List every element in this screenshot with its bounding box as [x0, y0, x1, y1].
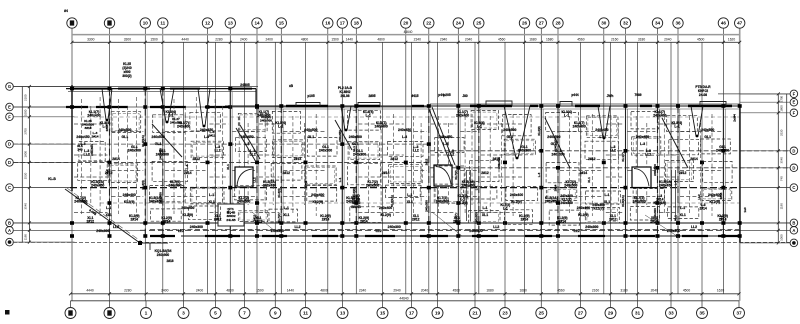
dimension tick top	[624, 41, 627, 44]
dimension tick bottom	[304, 292, 307, 295]
svg-text:KL2(9): KL2(9)	[183, 213, 194, 217]
grid bubble top # at x=72	[67, 18, 77, 28]
beam outline dashed room	[271, 164, 302, 181]
grid bubble bottom 1 at x=146	[141, 308, 152, 319]
grid bubble top 18 at x=356.3	[351, 18, 361, 28]
svg-text:12: 12	[205, 21, 211, 26]
svg-text:B: B	[8, 220, 11, 225]
beam outline dashed room	[666, 161, 694, 182]
svg-text:4800: 4800	[320, 289, 328, 293]
wall segment thick on bottom edge	[365, 235, 395, 237]
column	[676, 104, 680, 108]
grid bubble bottom 21 at x=475	[470, 308, 481, 319]
beam line interior horizontal dashed	[460, 170, 477, 172]
svg-text:240x400: 240x400	[497, 157, 501, 169]
wall segment thick on bottom edge	[682, 235, 708, 237]
svg-text:2400: 2400	[161, 289, 169, 293]
column	[108, 87, 112, 91]
bay window protrusion	[700, 102, 726, 107]
dimension line top overall (grey)	[72, 34, 740, 36]
beam line interior horizontal dashed	[210, 212, 229, 214]
svg-text:LL2: LL2	[215, 149, 221, 153]
svg-text:27: 27	[578, 311, 584, 317]
column	[656, 201, 660, 205]
svg-text:1680: 1680	[546, 37, 554, 41]
column	[143, 87, 147, 91]
svg-text:D: D	[8, 142, 11, 147]
beam line interior horizontal dashed	[628, 131, 656, 133]
column	[676, 221, 680, 225]
column	[624, 186, 628, 190]
svg-text:L-1: L-1	[106, 206, 111, 210]
grid line E horizontal	[13, 106, 430, 108]
svg-text:4800: 4800	[377, 37, 385, 41]
svg-text:240x450: 240x450	[91, 184, 104, 188]
svg-text:F: F	[793, 91, 796, 96]
beam outline dashed room	[307, 138, 337, 157]
svg-text:240x500: 240x500	[366, 184, 379, 188]
tapered shaft (funnel)	[160, 89, 174, 122]
wall interior vertical x=109.5	[109, 89, 111, 236]
svg-text:2#12: 2#12	[609, 218, 617, 222]
dimension tick right	[777, 166, 780, 169]
svg-text:3300: 3300	[87, 37, 95, 41]
dimension tick bottom	[474, 292, 477, 295]
column	[456, 234, 460, 238]
svg-text:240x300: 240x300	[260, 119, 272, 123]
beam outline dashed room	[111, 112, 141, 133]
svg-text:L-3: L-3	[640, 142, 645, 146]
svg-text:240x300: 240x300	[388, 225, 401, 229]
svg-text:L-1: L-1	[474, 185, 478, 190]
stair flight diagonal	[240, 125, 260, 159]
svg-text:KL5(2A): KL5(2A)	[654, 201, 666, 205]
beam outline dashed room	[471, 111, 498, 130]
corner mark bottom-left	[5, 310, 10, 315]
beam line interior horizontal dashed	[680, 196, 721, 198]
beam line interior horizontal dashed	[560, 131, 602, 133]
svg-text:XL1: XL1	[674, 215, 678, 221]
svg-text:GL1: GL1	[352, 146, 356, 152]
beam outline dashed room	[78, 161, 108, 180]
svg-text:L-1: L-1	[209, 193, 214, 197]
wall building top edge right portion	[225, 105, 740, 107]
beam line interior horizontal dashed	[232, 170, 255, 172]
beam line interior horizontal dashed	[660, 123, 677, 125]
diagonal end tick	[149, 243, 151, 250]
grid line vertical (bottom grid) x=580.5	[580, 42, 582, 301]
svg-text:2#14: 2#14	[322, 218, 330, 222]
wall segment thick on top edge	[530, 105, 538, 107]
column	[539, 186, 543, 190]
wall segment thick on top edge	[286, 105, 328, 107]
svg-text:2#14: 2#14	[112, 157, 120, 161]
beam line interior horizontal dashed	[481, 176, 523, 178]
beam outline dashed room	[350, 207, 382, 223]
beam outline dashed room	[504, 210, 532, 225]
column	[340, 186, 344, 190]
svg-text:L-1: L-1	[503, 207, 508, 211]
grid line vertical (bottom grid) x=244.5	[244, 42, 246, 301]
svg-text:p105: p105	[307, 94, 314, 98]
svg-text:A: A	[792, 228, 795, 233]
wall bottom-left horizontal continuation	[140, 242, 168, 244]
wall building bottom edge inner dashed	[150, 229, 740, 231]
svg-text:32: 32	[623, 21, 629, 26]
svg-text:31: 31	[635, 311, 641, 317]
beam line interior horizontal dashed	[259, 123, 279, 125]
beam outline dashed room	[235, 186, 267, 200]
svg-text:2#12: 2#12	[424, 158, 428, 165]
dimension tick bottom	[145, 292, 148, 295]
beam line interior horizontal dashed	[358, 176, 404, 178]
svg-text:4560: 4560	[453, 289, 461, 293]
svg-text:33: 33	[668, 311, 674, 317]
wall segment thick on top edge	[688, 105, 732, 107]
svg-text:LL2: LL2	[113, 225, 119, 229]
grid line vertical (bottom grid) x=702	[701, 42, 703, 301]
svg-text:KL7(2): KL7(2)	[277, 213, 281, 222]
beam line interior horizontal dashed	[408, 196, 427, 198]
wall building top edge left portion	[66, 88, 256, 90]
column	[228, 87, 232, 91]
svg-text:21: 21	[472, 311, 478, 317]
grid line D-upper horizontal	[13, 143, 430, 145]
grid bubble top 11 at x=162.8	[158, 18, 168, 28]
stair flight diagonal	[429, 109, 452, 167]
grid line vertical (top grid) x=678	[677, 29, 679, 294]
column	[255, 234, 259, 238]
beam outline dashed room	[348, 141, 380, 159]
beam line interior vertical dashed	[126, 106, 128, 205]
wall segment on top edge left	[74, 88, 108, 90]
column	[539, 221, 543, 225]
svg-text:44640: 44640	[399, 296, 408, 300]
svg-text:240x400: 240x400	[87, 114, 100, 118]
svg-text:L-1: L-1	[278, 125, 283, 129]
svg-text:240x500: 240x500	[304, 128, 317, 132]
grid bubble right D at y=167.8	[790, 164, 798, 172]
grid bubble bottom 15 at x=382.5	[377, 308, 388, 319]
column	[721, 234, 725, 238]
svg-text:4560: 4560	[577, 37, 585, 41]
svg-text:240x400: 240x400	[158, 148, 162, 160]
svg-text:KL-B: KL-B	[48, 177, 56, 181]
svg-text:LL2: LL2	[105, 169, 109, 175]
column	[279, 104, 283, 108]
column	[721, 104, 725, 108]
beam line interior horizontal dashed	[431, 212, 457, 214]
wall building right edge	[739, 106, 741, 242]
svg-text:2100: 2100	[24, 94, 28, 101]
grid bubble top 34 at x=657.5	[652, 18, 662, 28]
svg-text:240x500: 240x500	[633, 200, 646, 204]
svg-text:L-1: L-1	[284, 206, 289, 210]
svg-text:2#12: 2#12	[214, 218, 222, 222]
tapered shaft (funnel)	[102, 89, 112, 120]
svg-text:240x450: 240x450	[659, 184, 672, 188]
beam line interior vertical dashed	[392, 114, 394, 216]
svg-text:4500: 4500	[683, 289, 691, 293]
grid line vertical (top grid) x=541.3	[540, 29, 542, 301]
bay window protrusion	[560, 102, 572, 107]
beam line interior vertical dashed	[610, 116, 612, 214]
svg-text:B: B	[792, 220, 795, 225]
svg-text:240x300: 240x300	[96, 229, 109, 233]
dimension tick bottom	[738, 292, 741, 295]
beam outline dashed room	[238, 113, 267, 131]
svg-text:2040: 2040	[651, 289, 659, 293]
column	[304, 221, 308, 225]
svg-text:240x450: 240x450	[240, 135, 253, 139]
svg-text:LL2: LL2	[610, 149, 616, 153]
beam line interior vertical dashed	[448, 123, 450, 205]
beam line interior vertical dashed	[380, 123, 382, 205]
dimension tick right	[777, 241, 780, 244]
beam outline dashed room	[667, 116, 698, 132]
svg-text:XL1: XL1	[106, 213, 112, 217]
stair flight diagonal	[545, 118, 570, 168]
svg-text:240x400: 240x400	[653, 208, 657, 220]
beam line interior vertical dashed	[222, 106, 224, 205]
dimension tick top	[722, 41, 725, 44]
stair flight diagonal	[152, 124, 182, 157]
svg-text:2400: 2400	[240, 37, 248, 41]
svg-text:E: E	[8, 105, 11, 110]
svg-text:1800: 1800	[780, 105, 784, 112]
svg-text:LL2: LL2	[84, 153, 90, 157]
wall segment thick on bottom edge	[205, 235, 240, 237]
svg-text:240x400: 240x400	[123, 193, 136, 197]
svg-text:L-3: L-3	[402, 135, 407, 139]
grid bubble bottom 7 at x=244.5	[239, 308, 250, 319]
svg-text:19: 19	[435, 311, 441, 317]
dimension tick top	[656, 41, 659, 44]
column	[427, 104, 431, 108]
beam line interior vertical dashed	[489, 116, 491, 214]
svg-text:L-1: L-1	[604, 193, 609, 197]
svg-text:LL2: LL2	[294, 225, 300, 229]
dimension tick right	[777, 186, 780, 189]
svg-text:2#14: 2#14	[690, 157, 698, 161]
wall building bottom edge	[140, 222, 740, 224]
wall segment thick on E line	[205, 106, 232, 108]
wall diagonal bottom-left	[65, 189, 140, 243]
svg-text:4800: 4800	[226, 289, 234, 293]
svg-text:240x300: 240x300	[716, 149, 729, 153]
grid bubble left D at y=162.4	[6, 159, 14, 167]
svg-text:KL2(9): KL2(9)	[458, 201, 468, 205]
svg-text:240x400: 240x400	[577, 206, 590, 210]
column	[721, 221, 725, 225]
dimension tick bottom	[540, 292, 543, 295]
svg-text:3: 3	[182, 311, 185, 317]
beam outline dashed room	[386, 185, 421, 197]
column	[602, 221, 606, 225]
grid bubble top 20 at x=405.8	[401, 18, 411, 28]
svg-text:240x450: 240x450	[595, 128, 608, 132]
svg-text:KL2(9): KL2(9)	[312, 200, 323, 204]
beam outline dashed room	[633, 189, 665, 203]
svg-text:2940: 2940	[440, 37, 448, 41]
column	[456, 201, 460, 205]
svg-text:16: 16	[325, 21, 331, 26]
svg-text:L-3: L-3	[245, 142, 250, 146]
beam line interior horizontal dashed	[460, 196, 477, 198]
svg-text:XL1: XL1	[679, 213, 685, 217]
column	[700, 221, 704, 225]
column	[228, 142, 232, 146]
column on E line	[70, 105, 74, 109]
svg-text:24-08: 24-08	[699, 93, 707, 97]
leader line	[252, 212, 276, 232]
beam line interior horizontal dashed	[283, 170, 326, 172]
svg-text:2#12: 2#12	[283, 171, 291, 175]
svg-text:7989: 7989	[634, 93, 641, 97]
dimension tick left	[28, 241, 31, 244]
svg-text:18: 18	[354, 21, 360, 26]
svg-text:1500: 1500	[150, 37, 158, 41]
wall interior vertical x=478.8	[478, 106, 480, 236]
svg-text:2#14: 2#14	[719, 192, 723, 199]
grid line vertical (bottom grid) x=475	[474, 42, 476, 301]
svg-text:KL5(2A): KL5(2A)	[141, 135, 145, 147]
svg-text:2700: 2700	[780, 95, 784, 102]
column	[354, 234, 358, 238]
grid line vertical (top grid) x=207.5	[207, 29, 209, 294]
svg-text:24L4B: 24L4B	[226, 218, 236, 222]
dimension tick top	[427, 41, 430, 44]
svg-text:240x300: 240x300	[551, 153, 564, 157]
beam line interior horizontal dashed	[283, 196, 326, 198]
svg-text:XL1: XL1	[407, 200, 413, 204]
dimension tick bottom	[701, 292, 704, 295]
dimension line bottom 2	[71, 300, 740, 302]
svg-text:XL1: XL1	[208, 200, 214, 204]
svg-text:2280: 2280	[215, 37, 223, 41]
svg-text:L-3: L-3	[537, 172, 541, 177]
svg-text:1180: 1180	[780, 203, 784, 210]
svg-text:2700: 2700	[24, 128, 28, 135]
svg-text:KL3(4): KL3(4)	[277, 188, 281, 197]
wall interior vertical x=428.8	[428, 106, 430, 236]
column on E line	[255, 105, 259, 109]
svg-text:L-1: L-1	[564, 114, 569, 118]
grid bubble top 27 at x=541.3	[536, 18, 546, 28]
stair flight diagonal	[236, 128, 256, 162]
svg-text:240x500: 240x500	[170, 121, 182, 125]
grid line vertical (top grid) x=109.5	[109, 29, 111, 301]
grid line vertical (top grid) x=281.3	[280, 29, 282, 294]
dimension tick right	[777, 149, 780, 152]
svg-text:2#12: 2#12	[412, 218, 420, 222]
svg-text:25: 25	[539, 311, 545, 317]
grid line vertical (bottom grid) x=215.5	[215, 42, 217, 301]
svg-text:47: 47	[737, 21, 743, 26]
beam line interior vertical dashed	[80, 99, 82, 214]
beam outline dashed room	[435, 138, 464, 153]
beam line interior horizontal dashed	[232, 131, 255, 133]
dimension tick bottom	[381, 292, 384, 295]
wall segment thick on top edge	[470, 105, 512, 107]
beam line interior horizontal dashed	[358, 154, 404, 156]
column	[602, 161, 606, 165]
grid bubble top 15 at x=281.3	[276, 18, 286, 28]
svg-text:2160: 2160	[611, 37, 619, 41]
svg-text:GL1: GL1	[506, 135, 513, 139]
beam line interior horizontal dashed	[74, 154, 108, 156]
beam line interior vertical dashed	[315, 114, 317, 216]
beam outline dashed room	[585, 207, 619, 223]
svg-text:1500: 1500	[256, 289, 264, 293]
beam outline dashed room	[549, 210, 580, 225]
svg-text:F: F	[793, 110, 796, 115]
wall segment thick on E line	[96, 106, 128, 108]
svg-text:L-1: L-1	[338, 177, 342, 182]
stair shaft room	[218, 204, 244, 226]
svg-text:L-1: L-1	[674, 125, 679, 129]
wall interior vertical x=356.3	[355, 106, 357, 236]
svg-text:17: 17	[409, 311, 415, 317]
beam outline dashed room	[504, 139, 535, 155]
beam line interior horizontal dashed	[660, 212, 677, 214]
svg-text:3540: 3540	[24, 203, 28, 210]
wall segment thick on top edge	[355, 105, 380, 107]
column	[340, 104, 344, 108]
wall segment thick on bottom edge	[578, 235, 605, 237]
grid line vertical (bottom grid) x=411.5	[411, 42, 413, 301]
beam line interior horizontal dashed	[660, 154, 677, 156]
svg-text:28: 28	[555, 21, 561, 26]
beam line interior vertical dashed	[569, 116, 571, 214]
grid bubble bottom 29 at x=610.5	[605, 308, 616, 319]
grid line vertical (top grid) x=145.3	[144, 29, 146, 301]
column	[404, 221, 408, 225]
ramp curve 3	[436, 167, 451, 185]
column	[656, 166, 660, 170]
beam line mid2 horizontal dashed	[74, 116, 740, 118]
beam outline dashed room	[434, 166, 465, 184]
svg-text:1680: 1680	[529, 37, 537, 41]
beam outline dashed room	[273, 140, 303, 158]
svg-text:17: 17	[340, 21, 346, 26]
column	[556, 221, 560, 225]
grid bubble left A at y=230.3	[6, 227, 14, 235]
wall interior vertical x=625.5	[625, 106, 627, 236]
beam line interior horizontal dashed	[358, 212, 404, 214]
beam line interior horizontal dashed	[606, 154, 624, 156]
svg-text:LL2: LL2	[178, 229, 184, 233]
wall segment on top edge left	[170, 88, 200, 90]
svg-text:L-1: L-1	[407, 193, 412, 197]
column	[228, 221, 232, 225]
dimension tick left	[28, 143, 31, 146]
column	[108, 234, 112, 238]
svg-text:3180: 3180	[638, 37, 646, 41]
svg-text:240x400: 240x400	[653, 114, 666, 118]
dimension tick top	[677, 41, 680, 44]
ramp box 3 (curved slab symbol)	[434, 165, 452, 186]
beam line interior horizontal dashed	[606, 176, 624, 178]
svg-text:240x450: 240x450	[462, 184, 475, 188]
svg-text:240x500: 240x500	[503, 128, 516, 132]
svg-text:2#12: 2#12	[481, 171, 489, 175]
beam line interior vertical dashed	[688, 116, 690, 214]
beam line interior vertical dashed	[617, 123, 619, 205]
svg-text:LL2: LL2	[574, 229, 580, 233]
wall interior vertical x=558	[557, 106, 559, 236]
grid line vertical (top grid) x=739.7	[739, 29, 741, 301]
